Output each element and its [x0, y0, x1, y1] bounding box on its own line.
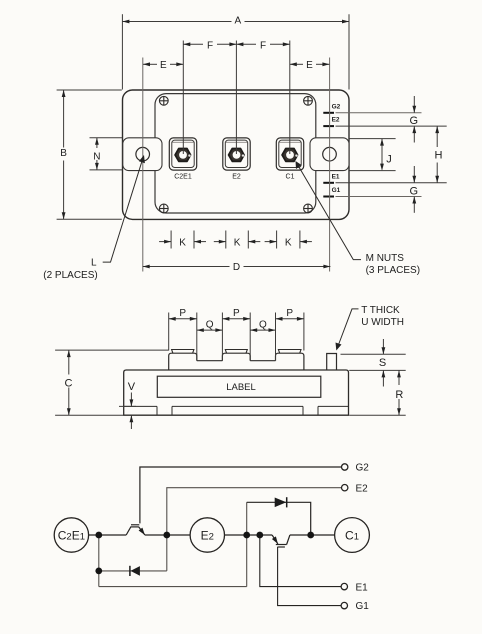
terminal pedestal 1 (side view)	[169, 353, 197, 370]
node dot 6	[95, 568, 102, 575]
svg-text:E: E	[306, 60, 313, 71]
terminal block C2E1	[169, 138, 196, 170]
dim N extension lines	[90, 138, 123, 170]
svg-text:LABEL: LABEL	[226, 382, 256, 393]
svg-text:P: P	[233, 308, 240, 319]
svg-text:A: A	[234, 16, 241, 27]
svg-text:F: F	[260, 40, 266, 51]
dim E left	[143, 63, 183, 65]
node C1	[335, 518, 370, 553]
pin mark G2 (top view)	[323, 112, 334, 114]
wire E2 to Q2 emitter	[224, 534, 272, 536]
dim K extension ticks	[171, 231, 300, 249]
svg-text:E1: E1	[332, 173, 340, 180]
wire Q2 collector to C1	[290, 534, 335, 536]
terminal pedestal 3 (side view)	[276, 353, 304, 370]
module case top outline	[155, 94, 316, 213]
side view body outline	[124, 370, 349, 415]
terminal circle E1	[341, 583, 347, 589]
svg-text:(3 PLACES): (3 PLACES)	[366, 265, 420, 276]
wire Q1 emitter to E2	[145, 534, 190, 536]
pin mark E1 (top view)	[323, 182, 334, 184]
left mounting ear recess	[123, 138, 162, 171]
svg-text:E2: E2	[232, 174, 241, 181]
svg-text:G1: G1	[332, 187, 341, 194]
terminal top plate 1 (side view)	[172, 350, 194, 354]
dim A extension lines	[122, 14, 349, 89]
dim K 1	[159, 241, 206, 243]
svg-text:M NUTS: M NUTS	[366, 253, 405, 264]
pin mark G1 (top view)	[323, 196, 334, 198]
hex nut M on terminal C1	[282, 149, 298, 162]
node C2E1	[54, 518, 88, 552]
pin E2 extension line	[336, 125, 447, 127]
dim E right	[290, 63, 330, 65]
dim K 2	[214, 241, 260, 243]
label plate	[157, 376, 320, 397]
wire bottom return to E1 node	[99, 586, 247, 588]
dim G top	[413, 96, 415, 143]
terminal circle E2	[342, 485, 348, 491]
svg-text:B: B	[60, 148, 67, 159]
dim F extension ticks	[183, 41, 289, 155]
dim B extension lines	[57, 90, 122, 219]
node dot 5	[307, 532, 314, 539]
dim F right	[236, 43, 289, 45]
node dot 3	[243, 532, 250, 539]
terminal block C1	[276, 138, 303, 170]
dim Q 2	[250, 329, 275, 331]
terminal pedestal 2 (side view)	[222, 353, 250, 361]
svg-text:C1: C1	[286, 174, 295, 181]
svg-text:E2: E2	[332, 117, 340, 124]
pin mark E2 (top view)	[323, 125, 334, 127]
hex nut M on terminal E2	[229, 149, 245, 162]
pin G2 extension line	[336, 112, 422, 114]
svg-text:N: N	[93, 151, 100, 162]
svg-text:K: K	[285, 237, 292, 248]
terminal block E2	[223, 138, 250, 170]
wire C2E1 to Q1 collector	[88, 534, 126, 536]
svg-text:K: K	[234, 237, 241, 248]
U-width tab (side view)	[327, 354, 337, 371]
S/R extension lines	[341, 354, 406, 415]
corner screw 2	[304, 96, 313, 105]
dim R	[398, 370, 400, 415]
svg-text:L: L	[91, 257, 97, 268]
svg-text:C2E1: C2E1	[174, 174, 192, 181]
wire E1 node vertical	[246, 502, 248, 586]
wire G2 net	[140, 467, 342, 523]
dim P 2	[222, 318, 250, 320]
dim H	[436, 126, 438, 183]
corner screw 3	[159, 204, 168, 213]
svg-text:J: J	[386, 153, 392, 165]
pin E1 extension line	[336, 182, 447, 184]
diode D1	[131, 566, 140, 576]
svg-text:C1: C1	[345, 528, 359, 542]
svg-text:E2: E2	[356, 484, 369, 495]
svg-text:V: V	[128, 381, 136, 393]
dim V extension line	[119, 405, 136, 407]
dim G bottom	[413, 166, 415, 213]
svg-text:U WIDTH: U WIDTH	[361, 317, 404, 328]
transistor Q1 (IGBT)	[126, 525, 145, 535]
side view baseplate step line	[124, 406, 349, 415]
dim C extension lines	[55, 350, 169, 415]
svg-text:H: H	[435, 149, 443, 161]
leader L (mounting holes)	[103, 161, 142, 262]
corner screw 4	[304, 204, 313, 213]
svg-text:(2 PLACES): (2 PLACES)	[43, 270, 97, 281]
wire diode D2 row	[247, 502, 311, 535]
terminal circle G2	[342, 464, 348, 470]
svg-text:E2: E2	[201, 528, 214, 542]
dim D	[143, 266, 331, 268]
svg-text:P: P	[286, 308, 293, 319]
svg-text:Q: Q	[259, 319, 267, 330]
corner screw 1	[159, 96, 168, 105]
svg-text:T THICK: T THICK	[361, 305, 400, 316]
module body outline (top view)	[123, 90, 350, 219]
right mounting ear recess	[310, 138, 349, 171]
node E2	[190, 518, 224, 552]
transistor Q2 (IGBT)	[272, 535, 290, 547]
terminal top plate 2 (side view)	[225, 350, 247, 354]
svg-text:G: G	[410, 185, 419, 197]
dim P/Q extension ticks	[169, 313, 304, 361]
dim V	[130, 393, 132, 430]
diode D2	[275, 498, 287, 508]
svg-text:D: D	[233, 262, 240, 273]
dim K 3	[265, 241, 312, 243]
svg-text:P: P	[179, 308, 186, 319]
plateau line between pedestals 2-3	[250, 360, 275, 362]
svg-text:C2E1: C2E1	[58, 528, 85, 542]
dim Q 1	[197, 329, 223, 331]
svg-text:C: C	[65, 377, 73, 389]
dim C	[68, 350, 70, 415]
ear bottom extension line	[350, 170, 396, 172]
dim B	[63, 90, 65, 219]
hex nut M on terminal C2E1	[175, 149, 191, 162]
terminal circle G1	[341, 602, 347, 608]
node dot 2	[163, 532, 170, 539]
svg-text:G2: G2	[332, 103, 341, 110]
wire diode D1 row	[99, 570, 167, 572]
node dot 4	[256, 532, 263, 539]
svg-text:G1: G1	[356, 601, 370, 612]
mounting hole L left	[136, 147, 150, 161]
ear top extension line	[350, 138, 396, 140]
leader T thick / U width	[338, 309, 358, 346]
dim A	[122, 21, 349, 23]
leader M nuts	[298, 165, 362, 260]
svg-text:E1: E1	[356, 582, 369, 593]
svg-text:F: F	[207, 40, 213, 51]
dim P 3	[276, 318, 304, 320]
svg-text:E: E	[160, 60, 167, 71]
node dot 1	[95, 532, 102, 539]
pin G1 extension line	[336, 196, 422, 198]
dim P 1	[169, 318, 197, 320]
svg-text:G: G	[410, 115, 419, 127]
dim J	[381, 139, 383, 170]
svg-text:R: R	[395, 389, 403, 401]
plateau line between pedestals 1-2	[197, 360, 223, 362]
wire G1 net	[278, 547, 342, 606]
svg-text:S: S	[379, 357, 386, 369]
dim N	[96, 138, 98, 170]
svg-text:G2: G2	[356, 462, 370, 473]
wire E1 net	[260, 535, 341, 587]
dim F left	[183, 43, 236, 45]
dim S	[382, 339, 384, 387]
svg-text:K: K	[179, 237, 186, 248]
terminal top plate 3 (side view)	[278, 350, 301, 354]
svg-text:Q: Q	[206, 319, 214, 330]
wire C2E1 branch down	[98, 535, 100, 587]
wire E2 aux net	[167, 488, 342, 571]
mounting hole L right	[323, 147, 337, 161]
dim E extension ticks (through mounting holes)	[143, 58, 330, 272]
